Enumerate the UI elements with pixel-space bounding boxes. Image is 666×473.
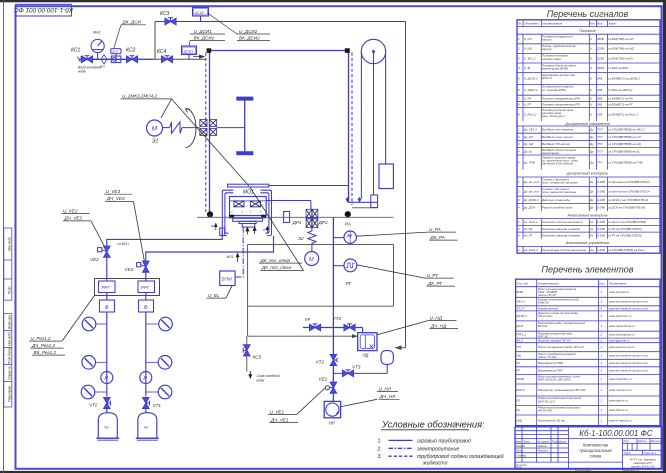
svg-text:КС3: КС3 [160, 11, 170, 17]
junction dot left [207, 211, 213, 217]
svg-text:N2: N2 [105, 425, 110, 430]
pedestal step 1 [233, 218, 263, 221]
svg-text:насоса: насоса [542, 47, 552, 51]
scan edge top [0, 0, 666, 2]
svg-text:Т.контр.: Т.контр. [516, 453, 527, 457]
svg-text:Комплексная: Комплексная [583, 443, 609, 448]
svg-text:из CPU(ВВ/ТВ8В) на НЛ: из CPU(ВВ/ТВ8В) на НЛ [608, 135, 641, 139]
svg-text:Поз.обо: Поз.обо [517, 281, 528, 285]
svg-text:МН1: МН1 [93, 31, 101, 35]
svg-text:Клапан ручной: Клапан ручной [538, 306, 558, 310]
svg-text:НЛ: НЛ [329, 421, 335, 426]
svg-text:2: 2 [517, 189, 520, 193]
svg-text:Вкл/Выкл э/м клапанов: Вкл/Выкл э/м клапанов [542, 128, 574, 132]
right bracket [261, 190, 272, 235]
solenoid valve VE2 [98, 246, 110, 257]
corner marker left [207, 48, 212, 53]
svg-text:НД1: НД1 [517, 418, 523, 422]
gauge MH1 [91, 39, 104, 59]
svg-text:Ак_РТ: Ак_РТ [523, 234, 533, 238]
svg-text:Вид: Вид [597, 21, 603, 25]
svg-text:www.eb-vactech-vacuum.com: www.eb-vactech-vacuum.com [609, 306, 649, 310]
svg-text:Дк_ДСИ: Дк_ДСИ [523, 205, 536, 209]
svg-text:ТТЛ: ТТЛ [597, 128, 602, 132]
svg-text:из ВЭ4 на 2МО4,2: из ВЭ4 на 2МО4,2 [608, 88, 633, 92]
svg-text:БПМ: БПМ [222, 277, 232, 282]
svg-text:Ду: Ду [589, 142, 594, 146]
svg-text:из МО1: из МО1 [118, 242, 130, 246]
svg-text:АР-40-КР1: АР-40-КР1 [537, 409, 553, 413]
svg-text:U_VE1: U_VE1 [270, 409, 285, 414]
wire: gas line 1 horizontal [107, 232, 222, 247]
valve KC4 [162, 56, 173, 63]
svg-text:VT3: VT3 [352, 365, 361, 370]
chamber bottom right shelf [349, 201, 378, 203]
svg-text:www.teplocontrol.ru: www.teplocontrol.ru [609, 324, 635, 328]
svg-text:U_НЛ: U_НЛ [524, 37, 532, 41]
svg-text:ДЧ_VE1: ДЧ_VE1 [270, 417, 289, 422]
svg-text:Ак: Ак [589, 220, 594, 224]
svg-text:Подп.дата: Подп.дата [8, 348, 12, 365]
svg-text:Ду: Ду [589, 135, 594, 139]
gas cylinder Ar [138, 413, 157, 439]
svg-text:полн. закрытой заслонке: полн. закрытой заслонке [542, 190, 577, 194]
svg-text:М: М [152, 126, 158, 133]
svg-text:U_НД: U_НД [430, 315, 443, 320]
svg-text:Кол: Кол [590, 21, 595, 25]
gauge G2 [146, 323, 159, 325]
damper [371, 195, 378, 208]
svg-text:КС4: КС4 [157, 49, 167, 55]
svg-text:Ф1,2: Ф1,2 [517, 338, 524, 342]
sensor box DSI1 [182, 46, 197, 55]
down arrows at shelf [346, 197, 349, 202]
svg-text:VE1: VE1 [319, 377, 328, 382]
svg-text:2: 2 [517, 47, 520, 51]
svg-text:из Рег1,2 на CPU(ВВ-6ТВ20: из Рег1,2 на CPU(ВВ-6ТВ20 [608, 220, 646, 224]
flexible coupling zigzag [170, 122, 183, 134]
power line dash-dot to BPM [235, 227, 243, 277]
leader to motor E1 [161, 99, 172, 118]
svg-text:Масса: Масса [638, 439, 646, 443]
valve VT4 [344, 324, 355, 331]
svg-text:www.eb-vactech-vacuum.com: www.eb-vactech-vacuum.com [609, 369, 649, 373]
svg-text:ВПМ: ВПМ [517, 290, 524, 294]
svg-text:www.mactribor.ru: www.mactribor.ru [609, 377, 632, 381]
valve VT3 [343, 370, 354, 377]
title block outer [515, 427, 663, 469]
svg-text:РРГ: РРГ [102, 285, 111, 290]
gearbox feedthrough (4 bearing boxes) [200, 120, 217, 136]
svg-text:Лит.: Лит. [622, 439, 630, 443]
bottle valve VT1 [143, 398, 150, 409]
svg-text:www.teplocom.ru: www.teplocom.ru [609, 314, 632, 318]
bottle valve VT2b [104, 398, 111, 409]
svg-text:Э1: Э1 [152, 139, 158, 145]
svg-text:VЕ1-3: VЕ1-3 [517, 300, 526, 304]
vacuum sensor RA [344, 231, 356, 243]
left bracket [222, 190, 233, 235]
wire: enclosure right edge (dark) [405, 22, 407, 348]
svg-text:U_VЕ1,3: U_VЕ1,3 [524, 56, 536, 60]
svg-text:Дк: Дк [589, 189, 594, 193]
svg-text:0-24В: 0-24В [597, 198, 605, 202]
svg-text:VE2: VE2 [90, 257, 99, 262]
svg-text:www.eb-vactech-vacuum.com: www.eb-vactech-vacuum.com [609, 300, 649, 304]
svg-text:Дк: Дк [589, 198, 594, 202]
cooling jacket dashed right [351, 53, 353, 206]
svg-text:0-10В: 0-10В [597, 234, 605, 238]
svg-text:Перечень элементов: Перечень элементов [541, 265, 633, 275]
svg-text:ДЧ_VE3: ДЧ_VE3 [106, 196, 125, 201]
svg-text:2.: 2. [377, 446, 382, 452]
svg-text:Р1: Р1 [517, 399, 521, 403]
svg-text:из ВЭ4(ТВ8) на НЛ: из ВЭ4(ТВ8) на НЛ [608, 37, 633, 41]
svg-text:Инв.дубл: Инв.дубл [8, 332, 12, 346]
valve KC3 [165, 18, 176, 25]
svg-text:Ан: Ан [589, 248, 594, 252]
svg-text:ДЧ_VE2: ДЧ_VE2 [64, 216, 83, 221]
inline fuse box on axis [284, 212, 290, 223]
svg-text:www.eb-vactech-vacuum.com: www.eb-vactech-vacuum.com [609, 354, 649, 358]
svg-text:ДК_РТ: ДК_РТ [427, 281, 443, 286]
svg-text:Ак: Ак [589, 234, 594, 238]
svg-text:Дата: Дата [558, 439, 567, 443]
solenoid valve VE1 [325, 382, 336, 393]
svg-text:Иванов: Иванов [538, 444, 548, 448]
wire: water return line top (dark) [155, 21, 406, 23]
motor E2 [305, 252, 319, 266]
wires through regulators [106, 293, 108, 301]
svg-text:Фильтр газовый ФГ-18: Фильтр газовый ФГ-18 [538, 338, 571, 342]
svg-text:из CPU(ВВ/ТВ8В) на ПЧВ: из CPU(ВВ/ТВ8В) на ПЧВ [608, 160, 643, 164]
sheet left edge [3, 0, 5, 473]
spool top flange [236, 97, 253, 101]
svg-text:РА: РА [345, 222, 351, 227]
svg-text:БКО-50-12,5: БКО-50-12,5 [538, 399, 555, 403]
wire line1 down [106, 312, 108, 397]
pedestal step 2 [239, 221, 256, 223]
svg-text:КС2: КС2 [126, 48, 136, 54]
pump NL box [324, 401, 340, 417]
sensor DSI head box [111, 49, 121, 54]
svg-text:Ar: Ar [143, 425, 149, 430]
svg-text:РРГ1,2: РРГ1,2 [517, 333, 527, 337]
svg-text:2: 2 [600, 338, 603, 342]
wire: water pipe to chamber (dark) [153, 58, 206, 60]
flow regulator RRG1 [99, 281, 116, 293]
svg-text:№ докум.: № докум. [538, 439, 550, 443]
MO1 top lid bar [228, 184, 269, 187]
svg-text:ВИП-025(12А-100-125У): ВИП-025(12А-100-125У) [538, 378, 571, 382]
svg-text:0-10В: 0-10В [597, 248, 605, 252]
svg-text:Дк_дв_отк: Дк_дв_отк [523, 180, 540, 184]
svg-text:ВК_ДСИ2: ВК_ДСИ2 [239, 35, 260, 40]
svg-text:ВК_Рег1,2: ВК_Рег1,2 [34, 350, 57, 355]
wire: lid to chamber right wall [269, 185, 349, 187]
svg-text:0-24В: 0-24В [597, 189, 605, 193]
wire: water to ND pump + arrow [396, 346, 406, 349]
wire right of pulley [385, 52, 387, 165]
svg-text:Лист: Лист [623, 451, 632, 455]
svg-text:Вкл/Выкл спир. насоса: Вкл/Выкл спир. насоса [542, 135, 573, 139]
scan edge bottom [0, 471, 666, 473]
scan edge right [663, 0, 666, 473]
svg-text:из РТ на CPU(ВВ-6ТВ20): из РТ на CPU(ВВ-6ТВ20) [608, 234, 641, 238]
svg-text:Ду_НЛ: Ду_НЛ [523, 135, 533, 139]
svg-text:1.: 1. [378, 438, 382, 444]
pedestal stub [242, 224, 255, 228]
svg-text:ТТЛ: ТТЛ [597, 149, 602, 153]
rotation arc arrow [186, 109, 197, 148]
left margin stamp group A [4, 228, 12, 407]
svg-text:U_БL: U_БL [524, 66, 532, 70]
gas outlet RA stub [332, 217, 334, 401]
svg-text:принципиальная: принципиальная [579, 448, 612, 453]
svg-text:U_VE2: U_VE2 [63, 208, 78, 213]
svg-text:VT4: VT4 [333, 316, 342, 321]
throttle line from machine [266, 200, 311, 202]
svg-text:ДСИ1,2: ДСИ1,2 [516, 314, 528, 318]
svg-text:U_2МК3,2: U_2МК3,2 [524, 88, 538, 92]
svg-text:Ан_Рег1,2: Ан_Рег1,2 [523, 248, 538, 252]
svg-text:ДСИ: ДСИ [516, 324, 524, 328]
svg-text:Пров.: Пров. [516, 449, 523, 453]
arrow into chamber [193, 55, 204, 58]
svg-text:Питание вакуумметра (РА): Питание вакуумметра (РА) [542, 96, 580, 100]
chamber left wall [209, 51, 211, 214]
cooling jacket dashed left [205, 53, 207, 213]
svg-text:Примечание: Примечание [609, 281, 627, 285]
svg-text:Ак_РА: Ак_РА [523, 227, 533, 231]
gauge G5 [95, 391, 107, 393]
sensor box DSI2 [193, 8, 209, 17]
filter F1 [100, 300, 115, 312]
svg-text:24В: 24В [596, 88, 602, 92]
svg-text:ДЧ_Рег1,2: ДЧ_Рег1,2 [31, 343, 55, 348]
svg-text:2: 2 [600, 333, 603, 337]
svg-text:0-24В: 0-24В [597, 205, 605, 209]
DR1 DR2 bearing assembly [306, 209, 318, 227]
svg-text:Расход холодной воды: Расход холодной воды [542, 205, 573, 209]
svg-text:из ВЭ4(ВТ2) на Рег1,2: из ВЭ4(ВТ2) на Рег1,2 [608, 112, 638, 116]
svg-text:Ду: Ду [589, 128, 594, 132]
shaft gearbox to spool [217, 127, 245, 129]
svg-text:Дк_дв_clos: Дк_дв_clos [523, 189, 539, 193]
corner marker right [345, 48, 350, 53]
svg-text:U_Рег1,2: U_Рег1,2 [524, 112, 537, 116]
solenoid valve VE3 [137, 261, 149, 272]
motor E1 [147, 120, 163, 136]
svg-text:Наименование: Наименование [542, 21, 562, 25]
svg-text:U_РТ: U_РТ [427, 273, 440, 278]
scheme name [579, 443, 612, 459]
leader to lid [250, 187, 304, 271]
svg-text:Ду_VЕ1,3: Ду_VЕ1,3 [523, 128, 537, 132]
svg-text:НД: НД [517, 354, 521, 358]
svg-text:ДСИ2: ДСИ2 [194, 11, 204, 15]
svg-text:ДСИ1,2: ДСИ1,2 [541, 76, 553, 80]
gauge G4 [146, 361, 158, 363]
svg-text:Кб-1-100.00.001 ФС: Кб-1-100.00.001 ФС [14, 6, 73, 14]
svg-text:Ду_ПЧВ: Ду_ПЧВ [523, 160, 535, 164]
svg-text:воды: воды [78, 70, 86, 74]
sensor enclosure box [248, 244, 394, 336]
svg-text:НД: НД [363, 353, 369, 358]
svg-text:Контроль вакуума в камере: Контроль вакуума в камере [542, 227, 581, 231]
svg-text:Дк_ДСИ1,2: Дк_ДСИ1,2 [523, 198, 540, 202]
svg-text:3.: 3. [378, 454, 382, 460]
svg-text:ДК_РА: ДК_РА [430, 235, 445, 240]
svg-text:из ВЭ4 на ВПН: из ВЭ4 на ВПН [608, 66, 629, 70]
svg-text:Регулировка потока натекания: Регулировка потока натекания [542, 248, 586, 252]
svg-text:из ВЭ4(ВП1) на ДСИ1,2: из ВЭ4(ВП1) на ДСИ1,2 [608, 77, 640, 81]
svg-text:Разраб.: Разраб. [516, 444, 526, 448]
svg-text:www.gazovik.ru: www.gazovik.ru [609, 338, 630, 342]
svg-text:U_2МК3,2МО4,2: U_2МК3,2МО4,2 [122, 94, 158, 99]
check valve [101, 55, 107, 64]
svg-text:Кол: Кол [599, 281, 604, 285]
svg-text:Р1: Р1 [517, 361, 521, 365]
svg-text:Петров: Петров [538, 449, 549, 453]
svg-text:VE3: VE3 [125, 267, 134, 272]
svg-text:Дк: Дк [589, 205, 594, 209]
svg-text:U_VE3: U_VE3 [106, 189, 121, 194]
svg-text:www.eb-vactech-vacuum.com: www.eb-vactech-vacuum.com [609, 361, 649, 365]
svg-text:Аналоговые управления: Аналоговые управления [565, 241, 609, 245]
svg-text:РА(В): РА(В) [517, 377, 525, 381]
counterweight [379, 164, 393, 189]
svg-text:2: 2 [517, 227, 520, 231]
svg-text:РТ: РТ [517, 369, 521, 373]
svg-text:часть ПС-25: часть ПС-25 [538, 293, 556, 297]
svg-text:U_ДСИ1: U_ДСИ1 [194, 29, 213, 34]
svg-text:КС5: КС5 [253, 355, 262, 360]
svg-text:U_НЛ: U_НЛ [379, 386, 392, 391]
gauge G3 [96, 361, 107, 363]
wire VE3 to regulator [145, 272, 147, 281]
chamber right wall [348, 51, 350, 203]
svg-text:Аналоговый контроль: Аналоговый контроль [566, 213, 607, 217]
svg-text:U_РА: U_РА [429, 227, 441, 232]
magnetron block right [250, 201, 260, 207]
svg-text:ВК_ДСИ1: ВК_ДСИ1 [194, 35, 215, 40]
svg-text:Контроль вакуума в камере: Контроль вакуума в камере [542, 234, 581, 238]
svg-text:Вкл/Выкл ТМ насоса: Вкл/Выкл ТМ насоса [542, 142, 570, 146]
svg-text:www.barrus.ru: www.barrus.ru [609, 408, 628, 412]
svg-text:из ВЭ4(ТВ8) на НД: из ВЭ4(ТВ8) на НД [608, 47, 633, 51]
mount pad right [261, 215, 266, 219]
svg-text:группа ЭП-12-03: группа ЭП-12-03 [631, 465, 655, 469]
wire: left stub from junction dot [209, 214, 211, 217]
svg-text:Ак_Рег1,2: Ак_Рег1,2 [523, 220, 538, 224]
gauge G6 [146, 391, 158, 393]
svg-text:Насос спиральный Varian SH-110: Насос спиральный Varian SH-110 [538, 345, 584, 349]
svg-text:напуска газов: напуска газов [542, 57, 561, 61]
reducer P2 [140, 372, 152, 384]
svg-text:380В: 380В [597, 66, 604, 70]
wire: water branch vertical (dark) [154, 22, 156, 60]
svg-text:U_РТ: U_РТ [524, 103, 531, 107]
svg-text:газовый трубопровод: газовый трубопровод [417, 437, 471, 444]
arrow into ND on water line [351, 335, 357, 338]
wire VE2 to regulator [106, 257, 108, 281]
svg-text:Контроль потока натекания: Контроль потока натекания [542, 220, 583, 224]
svg-text:Формат А1: Формат А1 [622, 469, 640, 473]
svg-text:Справ.№: Справ.№ [8, 366, 12, 380]
svg-text:U_Рег1,2: U_Рег1,2 [31, 336, 52, 341]
svg-text:Масштаб: Масштаб [651, 439, 664, 443]
svg-text:насоса: насоса [542, 38, 552, 42]
svg-text:из датчика на CPU(ВВ-6ТВ-24: из датчика на CPU(ВВ-6ТВ-24 [608, 180, 650, 184]
svg-text:(не более 1500 об/мин): (не более 1500 об/мин) [542, 162, 573, 166]
gas arrows under machine [246, 228, 249, 235]
svg-text:www.eltochpribor.ru: www.eltochpribor.ru [609, 333, 635, 337]
svg-text:ДСИ: ДСИ [111, 50, 118, 54]
svg-text:Условные обозначения:: Условные обозначения: [381, 420, 485, 430]
svg-text:ВСХод: ВСХод [538, 324, 547, 328]
svg-text:из РА на CPU(ВВ-6ТВ20): из РА на CPU(ВВ-6ТВ20) [608, 227, 642, 231]
svg-text:Перечень сигналов: Перечень сигналов [547, 9, 629, 19]
svg-text:0-10В: 0-10В [597, 220, 605, 224]
svg-text:жидкости: жидкости [422, 461, 448, 467]
inlet tick [78, 57, 84, 63]
svg-text:Утв.: Утв. [516, 465, 522, 469]
drain valve KC5 [246, 336, 248, 371]
svg-text:Натекатель 80 мм: Натекатель 80 мм [538, 418, 565, 422]
svg-text:ДСИ1: ДСИ1 [183, 49, 193, 53]
leader to MO1 lid [172, 99, 250, 186]
svg-text:эл. привода (МП1): эл. привода (МП1) [542, 88, 567, 92]
svg-text:Подп.: Подп. [8, 286, 12, 295]
svg-text:U_ДСИ2: U_ДСИ2 [239, 29, 258, 34]
svg-text:Дискретные управления: Дискретные управления [564, 122, 609, 126]
shaft to gearbox [182, 127, 200, 129]
svg-text:Р: Р [104, 376, 108, 382]
drain arrow [249, 371, 252, 378]
svg-text:www.e-vactron.ru: www.e-vactron.ru [609, 418, 632, 422]
svg-text:из ДСИ на CPU(ВВ-6ТВ-24): из ДСИ на CPU(ВВ-6ТВ-24) [608, 205, 645, 209]
svg-text:24В: 24В [596, 103, 602, 107]
svg-text:0-24В: 0-24В [597, 180, 605, 184]
svg-text:Обозначен.: Обозначен. [524, 21, 539, 25]
svg-text:15В: 15В [597, 112, 602, 116]
power supply BPM box [220, 271, 235, 286]
svg-text:U_ЕL: U_ЕL [208, 293, 220, 298]
company [630, 458, 656, 469]
svg-text:ТТЛ: ТТЛ [597, 160, 602, 164]
svg-text:из CPU(ВВ/ТВ8В) на БL: из CPU(ВВ/ТВ8В) на БL [608, 149, 640, 153]
svg-text:полн. открытой заслонке: полн. открытой заслонке [542, 180, 578, 184]
svg-text:М: М [309, 257, 314, 263]
svg-text:ДЧ_НЛ: ДЧ_НЛ [379, 394, 396, 399]
gas outlet RT stub [333, 265, 344, 267]
svg-text:www.barrus.ru: www.barrus.ru [609, 399, 628, 403]
svg-text:24В: 24В [596, 77, 602, 81]
svg-text:из CPU(ВВ/ТВ8В) на НД: из CPU(ВВ/ТВ8В) на НД [608, 142, 641, 146]
pulley [361, 39, 385, 63]
svg-text:0-10В: 0-10В [597, 227, 605, 231]
svg-text:СВ-космос: СВ-космос [538, 314, 553, 318]
svg-text:Вакуумметр ПМТ: Вакуумметр ПМТ [538, 369, 563, 373]
signals table grid [517, 26, 660, 28]
svg-text:магнетрона (БПМ): магнетрона (БПМ) [542, 66, 568, 70]
svg-text:Инв.подл: Инв.подл [8, 237, 12, 251]
svg-text:2: 2 [600, 314, 603, 318]
svg-text:Питание вакуумметра (РТ): Питание вакуумметра (РТ) [542, 103, 580, 107]
regulators enclosure [95, 279, 160, 296]
svg-text:U_НД: U_НД [524, 47, 532, 51]
